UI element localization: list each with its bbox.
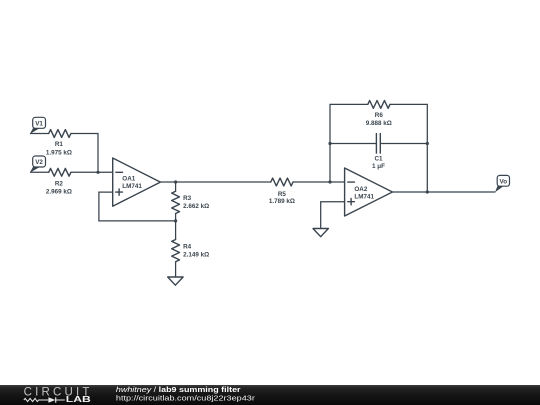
svg-text:2.149 kΩ: 2.149 kΩ xyxy=(183,251,209,258)
wire OA2 output to Vo xyxy=(392,191,495,193)
ground under R4 xyxy=(168,277,183,285)
svg-text:http://circuitlab.com/cu8j22r3: http://circuitlab.com/cu8j22r3ep43r xyxy=(116,395,255,403)
wire OA1 non-inverting input to feedback node xyxy=(99,192,176,221)
svg-text:OA2: OA2 xyxy=(354,186,367,193)
wire OA2 non-inverting input to ground xyxy=(321,202,345,229)
wire V1 to R1 xyxy=(30,133,49,135)
svg-text:2.662 kΩ: 2.662 kΩ xyxy=(183,203,209,210)
svg-text:1.789 kΩ: 1.789 kΩ xyxy=(269,198,295,205)
junction C1 left xyxy=(328,142,331,145)
wire R2 to OA1 inverting input xyxy=(71,171,113,173)
terminal Vo xyxy=(495,175,510,192)
CircuitLab logo wordmark xyxy=(24,386,93,404)
svg-text:R5: R5 xyxy=(278,191,287,198)
svg-text:V1: V1 xyxy=(35,120,43,127)
op-amp OA1 xyxy=(113,158,161,206)
junction OA2 output node xyxy=(426,190,429,193)
resistor R3 xyxy=(172,191,209,213)
wire V2 to R2 xyxy=(30,171,49,173)
svg-text:V2: V2 xyxy=(35,159,43,166)
svg-text:R2: R2 xyxy=(55,181,64,188)
svg-text:Vo: Vo xyxy=(500,178,508,185)
wire C1 left lead xyxy=(330,143,376,145)
svg-text:R6: R6 xyxy=(375,112,384,119)
junction node A xyxy=(96,171,99,174)
svg-text:1 μF: 1 μF xyxy=(372,163,385,170)
resistor R2 xyxy=(46,168,72,195)
wire R4 to ground xyxy=(175,262,177,278)
svg-text:9.888 kΩ: 9.888 kΩ xyxy=(366,120,392,127)
svg-text:hwhitney / lab9 summing filter: hwhitney / lab9 summing filter xyxy=(116,386,241,394)
svg-text:LM741: LM741 xyxy=(122,183,142,190)
svg-text:R4: R4 xyxy=(183,243,192,250)
CircuitLab logo resistor-diode glyph xyxy=(24,397,65,402)
wire R1 to node A xyxy=(71,134,98,173)
wire feedback left vertical xyxy=(330,104,368,182)
CircuitLab footer bar xyxy=(0,385,540,405)
resistor R1 xyxy=(46,130,72,157)
svg-text:R3: R3 xyxy=(183,195,192,202)
wire R3 top lead xyxy=(175,182,177,191)
resistor R4 xyxy=(172,240,209,262)
capacitor C1 xyxy=(372,134,385,170)
wire R6 to feedback right vertical xyxy=(390,104,427,192)
wire R5 to OA2 inverting input xyxy=(293,181,345,183)
wire OA1 output xyxy=(160,181,270,183)
ground near OA2 xyxy=(313,229,328,237)
op-amp OA2 xyxy=(345,168,393,216)
svg-text:2.969 kΩ: 2.969 kΩ xyxy=(46,189,72,196)
svg-text:R1: R1 xyxy=(55,141,64,148)
resistor R5 xyxy=(269,178,295,205)
svg-text:C1: C1 xyxy=(374,156,383,163)
junction C1 right xyxy=(426,142,429,145)
junction feedback node xyxy=(174,219,177,222)
terminal V2 xyxy=(30,156,46,173)
svg-text:OA1: OA1 xyxy=(122,176,135,183)
junction node B xyxy=(328,180,331,183)
junction OA1 output node xyxy=(174,180,177,183)
terminal V1 xyxy=(30,117,46,134)
svg-text:1.975 kΩ: 1.975 kΩ xyxy=(46,150,72,157)
resistor R6 xyxy=(366,101,392,127)
svg-text:LM741: LM741 xyxy=(354,193,374,200)
wire R3 bottom lead xyxy=(175,214,177,221)
wire R4 top lead xyxy=(175,221,177,240)
svg-text:LAB: LAB xyxy=(66,395,91,404)
wire C1 right lead xyxy=(380,143,427,145)
